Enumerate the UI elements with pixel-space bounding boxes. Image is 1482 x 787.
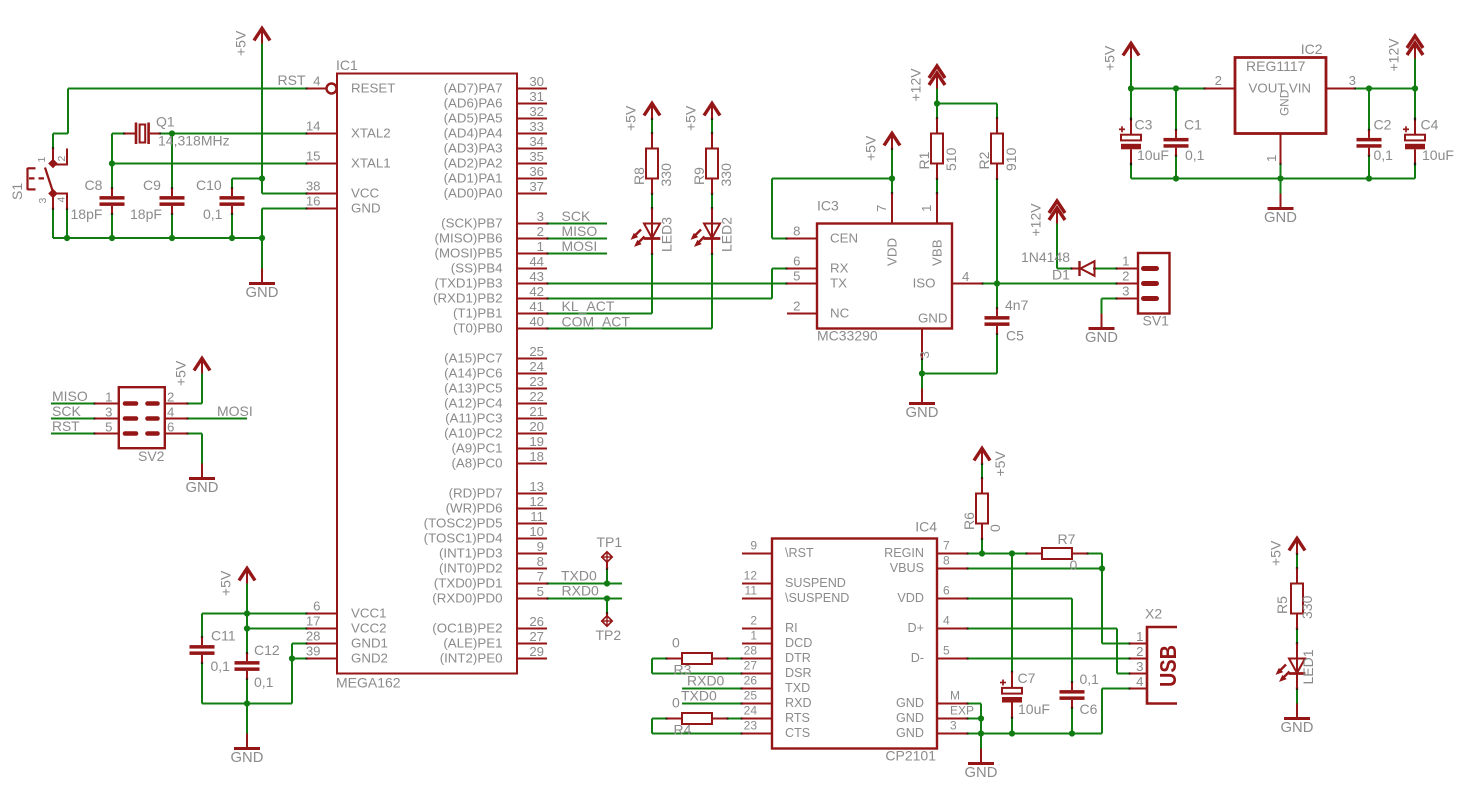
svg-text:GND: GND <box>1264 210 1297 226</box>
ground GND SV1 <box>1101 314 1103 328</box>
IC1 pin 29 (INT2)PE0 <box>517 658 547 660</box>
svg-text:RXD0: RXD0 <box>562 583 600 599</box>
svg-text:IC3: IC3 <box>817 198 839 214</box>
wire R6 bottom <box>981 539 983 554</box>
connector SV2 <box>119 387 165 448</box>
IC2 pin 1 GND <box>1280 134 1282 164</box>
svg-text:23: 23 <box>744 719 758 733</box>
svg-text:1: 1 <box>1136 629 1143 644</box>
svg-text:C11: C11 <box>211 628 236 644</box>
wire GND EXP <box>967 718 981 720</box>
svg-text:20: 20 <box>529 419 544 434</box>
svg-text:(A10)PC2: (A10)PC2 <box>444 426 502 441</box>
svg-text:R8: R8 <box>631 167 647 185</box>
svg-text:1: 1 <box>1264 155 1279 162</box>
IC3 pin 3 GND <box>921 329 923 359</box>
svg-text:LED1: LED1 <box>1300 649 1316 684</box>
wire C1 top <box>1175 89 1177 131</box>
ground GND C11 C12 <box>246 734 248 748</box>
wire USB GND bus <box>981 733 1102 735</box>
IC4 pin 6 VDD <box>937 598 967 600</box>
wire D1 cathode to SV1 pin1 <box>1095 268 1118 270</box>
IC1 pin 33 (AD4)PA4 <box>517 133 547 135</box>
wire LED1 bottom <box>1296 689 1298 704</box>
svg-text:15: 15 <box>306 149 321 164</box>
IC1 pin 43 (TXD1)PB3 <box>517 283 547 285</box>
IC1 pin 35 (AD2)PA2 <box>517 163 547 165</box>
svg-text:MOSI: MOSI <box>217 403 253 419</box>
IC1 pin 15 XTAL1 <box>307 163 337 165</box>
svg-text:27: 27 <box>529 629 544 644</box>
svg-text:(A9)PC1: (A9)PC1 <box>452 441 503 456</box>
capacitor C9 <box>160 196 185 200</box>
svg-text:32: 32 <box>529 104 544 119</box>
svg-text:(SS)PB4: (SS)PB4 <box>451 261 503 276</box>
svg-text:37: 37 <box>529 179 544 194</box>
LED LED2 <box>711 209 713 254</box>
junction REGIN R6 <box>979 550 985 556</box>
svg-text:(RD)PD7: (RD)PD7 <box>449 486 503 501</box>
svg-text:24: 24 <box>744 704 758 718</box>
IC4 pin 26 TXD <box>742 688 772 690</box>
IC4 pin 3 GND <box>937 733 967 735</box>
IC4 pin 11 \SUSPEND <box>742 598 772 600</box>
svg-text:DTR: DTR <box>785 651 811 665</box>
svg-text:RST: RST <box>278 72 306 88</box>
svg-text:R7: R7 <box>1058 531 1076 547</box>
wire RST SV2 <box>51 433 95 435</box>
svg-text:C5: C5 <box>1006 328 1024 344</box>
ground GND SV2 <box>201 464 203 478</box>
IC1 pin 2 (MISO)PB6 <box>517 238 547 240</box>
svg-text:CTS: CTS <box>785 726 810 740</box>
capacitor C3 <box>1130 119 1132 135</box>
svg-text:VIN: VIN <box>1289 81 1311 96</box>
svg-text:39: 39 <box>306 644 321 659</box>
wire PB3 TXD1 to IC3 TX <box>547 283 787 285</box>
wire C8 bottom <box>111 214 113 239</box>
wire D+ net <box>967 628 1117 630</box>
wire R2 bottom to ISO net <box>996 179 998 284</box>
svg-text:27: 27 <box>744 659 758 673</box>
svg-text:SUSPEND: SUSPEND <box>785 576 846 590</box>
svg-text:TP1: TP1 <box>597 534 623 550</box>
svg-text:1: 1 <box>1122 254 1129 269</box>
junction IC3 GND <box>919 370 925 376</box>
svg-text:33: 33 <box>529 119 544 134</box>
svg-text:5: 5 <box>943 644 950 658</box>
wire C3 bottom <box>1130 164 1132 179</box>
wire TP1 <box>606 569 608 584</box>
wire GND bus under caps <box>53 237 262 239</box>
wire +5V vertical main <box>261 44 263 179</box>
svg-text:XTAL1: XTAL1 <box>351 156 391 171</box>
crystal Q1 <box>125 133 136 135</box>
resistor R7 <box>1027 553 1042 555</box>
IC4 pin 25 RXD <box>742 703 772 705</box>
svg-text:R9: R9 <box>691 167 707 185</box>
power +12V R1 <box>936 73 938 89</box>
svg-text:LED3: LED3 <box>659 217 675 252</box>
svg-text:10uF: 10uF <box>1422 147 1454 163</box>
svg-text:GND: GND <box>896 711 924 725</box>
wire VBUS vertical <box>1101 569 1103 644</box>
IC1 pin 12 (WR)PD6 <box>517 508 547 510</box>
IC2 pin 2 VOUT <box>1205 88 1235 90</box>
svg-text:+5V: +5V <box>1102 45 1118 71</box>
wire C4 bottom <box>1414 164 1416 179</box>
power +5V SV2 <box>201 359 203 374</box>
wire VIN net <box>1355 88 1416 90</box>
svg-text:10uF: 10uF <box>1018 701 1050 717</box>
IC1 pin 5 (RXD0)PD0 <box>517 598 547 600</box>
svg-text:(T0)PB0: (T0)PB0 <box>453 321 503 336</box>
IC1 pin 19 (A9)PC1 <box>517 448 547 450</box>
svg-text:KL_ACT: KL_ACT <box>562 298 615 314</box>
IC1 pin 13 (RD)PD7 <box>517 493 547 495</box>
IC1 pin 9 (INT1)PD3 <box>517 553 547 555</box>
svg-text:CP2101: CP2101 <box>885 748 936 764</box>
wire R6 top <box>981 464 983 479</box>
wire +12V IC2 <box>1414 59 1416 89</box>
wire VBUS net <box>967 568 1102 570</box>
svg-text:0,1: 0,1 <box>1185 147 1205 163</box>
wire IC2 GND bus <box>1131 178 1415 180</box>
ground GND IC4 <box>980 749 982 763</box>
svg-text:0: 0 <box>672 634 680 650</box>
svg-text:M: M <box>950 689 960 703</box>
capacitor C1 <box>1164 138 1189 142</box>
ground GND IC2 <box>1280 194 1282 208</box>
svg-text:VCC2: VCC2 <box>351 621 386 636</box>
IC3 pin 6 RX <box>787 268 817 270</box>
svg-text:3: 3 <box>105 405 112 420</box>
svg-text:330: 330 <box>658 163 674 187</box>
junction +5V C10 node <box>259 175 265 181</box>
svg-text:(AD6)PA6: (AD6)PA6 <box>444 96 503 111</box>
IC3 pin 8 CEN <box>787 238 817 240</box>
IC4 pin 27 DSR <box>742 673 772 675</box>
wire R3 right <box>727 658 742 660</box>
IC4 pin 12 SUSPEND <box>742 583 772 585</box>
svg-text:X2: X2 <box>1145 606 1162 622</box>
wire R8 top <box>651 119 653 134</box>
svg-text:RXD: RXD <box>785 696 812 710</box>
resistor R5 <box>1296 569 1298 584</box>
IC1 pin 21 (A11)PC3 <box>517 418 547 420</box>
svg-text:C2: C2 <box>1374 117 1392 133</box>
ground GND LED1 <box>1296 704 1298 718</box>
IC1 pin 34 (AD3)PA3 <box>517 148 547 150</box>
svg-text:+5V: +5V <box>683 105 699 131</box>
wire R2 top <box>996 104 998 119</box>
svg-text:GND: GND <box>896 696 924 710</box>
wire GND M down <box>980 704 982 734</box>
svg-text:(TXD0)PD1: (TXD0)PD1 <box>434 576 503 591</box>
svg-text:21: 21 <box>529 404 544 419</box>
svg-text:18: 18 <box>529 449 544 464</box>
wire C10 top <box>231 179 233 189</box>
capacitor C7 <box>1011 672 1013 688</box>
power +5V R5 <box>1296 539 1298 554</box>
svg-text:GND: GND <box>231 750 264 766</box>
junction IC2 bus C2 <box>1366 175 1372 181</box>
wire MISO SV2 <box>51 403 95 405</box>
wire +5V to VCC pin <box>261 179 263 194</box>
IC4 pin EXP GND <box>937 718 967 720</box>
svg-text:2: 2 <box>537 224 544 239</box>
wire R1 bottom to VBB <box>936 179 938 194</box>
svg-text:VDD: VDD <box>897 591 924 605</box>
power +5V R9 <box>711 104 713 119</box>
svg-text:8: 8 <box>537 554 544 569</box>
svg-text:1: 1 <box>105 390 112 405</box>
svg-text:25: 25 <box>744 689 758 703</box>
resistor R8 <box>651 134 653 149</box>
IC1 pin 18 (A8)PC0 <box>517 463 547 465</box>
svg-text:D+: D+ <box>908 621 924 635</box>
svg-text:40: 40 <box>529 314 544 329</box>
svg-text:C12: C12 <box>254 642 280 658</box>
svg-text:SCK: SCK <box>52 403 81 419</box>
svg-text:(TXD1)PB3: (TXD1)PB3 <box>435 276 503 291</box>
svg-text:(INT1)PD3: (INT1)PD3 <box>439 546 503 561</box>
svg-text:NC: NC <box>830 306 850 321</box>
wire GND stub down <box>261 238 263 269</box>
IC3 MC33290 box <box>817 224 952 329</box>
IC1 pin 42 (RXD1)PB2 <box>517 298 547 300</box>
wire C bus right <box>247 703 292 705</box>
svg-text:(A14)PC6: (A14)PC6 <box>444 366 502 381</box>
wire R7 to VBUS <box>1101 554 1103 569</box>
svg-text:(TOSC1)PD4: (TOSC1)PD4 <box>424 531 503 546</box>
IC1 pin 17 VCC2 <box>307 628 337 630</box>
IC2 REG1117 box <box>1235 58 1326 134</box>
power +5V IC3 <box>891 134 893 149</box>
svg-text:GND: GND <box>246 285 279 301</box>
wire SCK <box>547 223 607 225</box>
wire C4 top <box>1414 89 1416 120</box>
svg-text:REGIN: REGIN <box>884 546 924 560</box>
svg-text:GND: GND <box>1085 330 1118 346</box>
capacitor C8 <box>100 196 125 200</box>
junction GND bus C10 <box>229 235 235 241</box>
wire C12 bottom <box>246 679 248 704</box>
IC1 pin 14 XTAL2 <box>307 133 337 135</box>
svg-text:(A15)PC7: (A15)PC7 <box>444 351 502 366</box>
svg-text:26: 26 <box>744 674 758 688</box>
diode D1 <box>1072 268 1080 270</box>
wire RXD0 from IC1 <box>547 598 622 600</box>
IC3 pin 2 NC <box>787 313 817 315</box>
svg-text:+5V: +5V <box>1268 540 1284 566</box>
svg-text:12: 12 <box>529 494 544 509</box>
IC1 pin 40 (T0)PB0 <box>517 328 547 330</box>
svg-text:5: 5 <box>105 420 112 435</box>
wire TP2 <box>606 599 608 614</box>
svg-text:28: 28 <box>744 644 758 658</box>
svg-text:2: 2 <box>793 299 800 314</box>
wire RST to S1 <box>67 89 69 134</box>
svg-text:(SCK)PB7: (SCK)PB7 <box>441 216 502 231</box>
svg-text:17: 17 <box>306 614 321 629</box>
IC1 pin 28 GND1 <box>307 643 337 645</box>
svg-text:R3: R3 <box>674 662 692 678</box>
testpoint TP1 <box>606 562 608 569</box>
svg-text:VCC: VCC <box>351 186 379 201</box>
svg-text:C1: C1 <box>1184 117 1202 133</box>
svg-text:(WR)PD6: (WR)PD6 <box>446 501 503 516</box>
svg-text:2: 2 <box>167 390 174 405</box>
svg-text:4: 4 <box>56 197 68 203</box>
IC1 pin 31 (AD6)PA6 <box>517 103 547 105</box>
wire XTAL1 <box>112 163 307 165</box>
svg-text:31: 31 <box>529 89 544 104</box>
svg-text:4: 4 <box>943 614 950 628</box>
wire +5V IC2 <box>1130 59 1132 89</box>
svg-text:S1: S1 <box>9 183 25 200</box>
svg-text:C6: C6 <box>1080 701 1098 717</box>
wire X2 pin4 <box>1102 688 1130 690</box>
wire VDD to C6 <box>1071 599 1073 683</box>
svg-text:(AD1)PA1: (AD1)PA1 <box>444 171 503 186</box>
power +5V VCC <box>246 569 248 584</box>
svg-text:330: 330 <box>1299 595 1315 619</box>
svg-text:(A8)PC0: (A8)PC0 <box>452 456 503 471</box>
connector SV1 <box>1138 253 1170 314</box>
wire CEN horizontal <box>772 178 892 180</box>
svg-text:SV2: SV2 <box>138 448 165 464</box>
svg-text:+12V: +12V <box>1386 38 1402 72</box>
svg-text:CEN: CEN <box>830 231 858 246</box>
wire VCC1 <box>202 613 307 615</box>
svg-text:GND: GND <box>186 480 219 496</box>
IC4 pin 7 REGIN <box>937 553 967 555</box>
LED LED3 <box>651 209 653 254</box>
svg-text:18pF: 18pF <box>71 206 103 222</box>
svg-text:TXD0: TXD0 <box>681 688 717 704</box>
IC3 pin 4 ISO <box>952 283 982 285</box>
svg-text:3: 3 <box>1349 73 1356 88</box>
svg-text:(INT2)PE0: (INT2)PE0 <box>440 651 503 666</box>
wire R5 to LED1 <box>1296 629 1298 644</box>
junction VBUS <box>1099 565 1105 571</box>
junction EXP <box>978 715 984 721</box>
junction VIN C2 <box>1366 85 1372 91</box>
IC1 pin 24 (A14)PC6 <box>517 373 547 375</box>
wire IC1 GND pin16 <box>262 208 307 210</box>
wire GND M <box>967 703 981 705</box>
svg-text:MOSI: MOSI <box>562 238 598 254</box>
junction XTAL1 C8 <box>109 160 115 166</box>
IC1 pin 22 (A12)PC4 <box>517 403 547 405</box>
svg-text:+12V: +12V <box>908 68 924 102</box>
svg-text:TXD0: TXD0 <box>561 568 597 584</box>
svg-text:SCK: SCK <box>562 208 591 224</box>
svg-text:(AD3)PA3: (AD3)PA3 <box>444 141 503 156</box>
junction VOUT C3 <box>1128 85 1134 91</box>
svg-text:3: 3 <box>917 351 932 358</box>
IC4 pin 8 VBUS <box>937 568 967 570</box>
wire RXD0 to IC4 <box>682 688 742 690</box>
wire +5V vertical C12 <box>246 584 248 654</box>
wire C7 vertical <box>1011 554 1013 673</box>
capacitor C2 <box>1357 138 1382 142</box>
IC4 pin M GND <box>937 703 967 705</box>
svg-text:REG1117: REG1117 <box>1246 58 1306 74</box>
svg-text:GND: GND <box>918 311 948 326</box>
capacitor C4 <box>1414 119 1416 135</box>
svg-text:14,318MHz: 14,318MHz <box>158 133 230 149</box>
power +12V D1 <box>1056 208 1058 224</box>
wire +12V to R2 <box>937 103 997 105</box>
wire KL_ACT up to LED3 <box>651 254 653 314</box>
svg-text:+5V: +5V <box>173 360 189 386</box>
svg-text:6: 6 <box>793 254 800 269</box>
svg-text:R4: R4 <box>674 722 692 738</box>
svg-text:GND: GND <box>1278 90 1292 116</box>
svg-text:0,1: 0,1 <box>203 206 223 222</box>
wire IC2 pin1 <box>1280 164 1282 179</box>
svg-text:RESET: RESET <box>351 81 395 96</box>
svg-text:+5V: +5V <box>863 135 879 161</box>
resistor R9 <box>711 134 713 149</box>
svg-text:13: 13 <box>529 479 544 494</box>
svg-text:(AD7)PA7: (AD7)PA7 <box>444 81 503 96</box>
junction GND bus S1 <box>64 235 70 241</box>
svg-text:8: 8 <box>793 224 800 239</box>
svg-text:+5V: +5V <box>218 570 234 596</box>
wire MOSI <box>547 253 607 255</box>
svg-text:R6: R6 <box>961 512 977 530</box>
capacitor C11 <box>190 645 215 649</box>
wire crystal left <box>112 133 125 135</box>
IC1 pin 37 (AD0)PA0 <box>517 193 547 195</box>
wire X2 pin4 down <box>1101 689 1103 734</box>
IC1 pin 6 VCC1 <box>307 613 337 615</box>
wire COM_ACT up to LED2 <box>711 254 713 329</box>
wire C10 bottom <box>231 214 233 239</box>
IC1 pin 1 (MOSI)PB5 <box>517 253 547 255</box>
junction +12V R1 R2 <box>934 100 940 106</box>
svg-text:MC33290: MC33290 <box>817 328 878 344</box>
junction IC2 bus pin1 <box>1277 175 1283 181</box>
switch S1 <box>52 149 54 167</box>
IC4 pin 2 RI <box>742 628 772 630</box>
wire MOSI SV2 <box>187 418 247 420</box>
wire PB2 RXD1 to IC3 RX <box>547 298 772 300</box>
wire C9 bottom <box>171 214 173 239</box>
svg-text:LED2: LED2 <box>719 217 735 252</box>
svg-text:1: 1 <box>36 157 48 163</box>
svg-text:14: 14 <box>306 119 321 134</box>
wire R8 to LED3 <box>651 194 653 209</box>
wire D1 anode <box>1057 268 1072 270</box>
svg-text:(T1)PB1: (T1)PB1 <box>453 306 503 321</box>
wire MISO <box>547 238 607 240</box>
junction GND bus right <box>259 235 265 241</box>
svg-text:\RST: \RST <box>785 546 814 560</box>
svg-text:0,1: 0,1 <box>254 674 274 690</box>
svg-text:RST: RST <box>52 419 80 434</box>
resistor R4 <box>667 718 682 720</box>
svg-text:2: 2 <box>56 156 68 162</box>
junction crystal right C9 <box>169 130 175 136</box>
svg-text:(AD0)PA0: (AD0)PA0 <box>444 186 503 201</box>
svg-text:+5V: +5V <box>992 451 1008 477</box>
svg-text:C9: C9 <box>143 177 161 193</box>
svg-text:MEGA162: MEGA162 <box>336 675 401 691</box>
